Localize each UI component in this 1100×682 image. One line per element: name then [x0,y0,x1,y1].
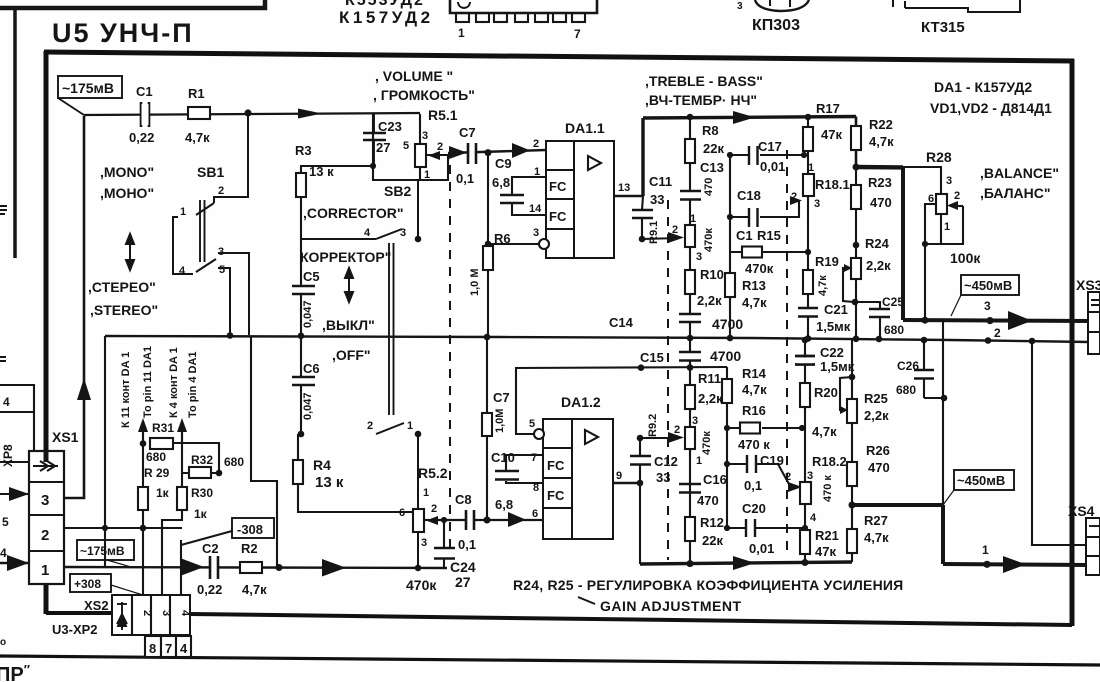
node C9 junction [485,149,492,156]
svg-text:R20: R20 [814,385,838,400]
svg-text:6: 6 [928,193,934,205]
svg-text:XS4: XS4 [1068,503,1095,519]
upper tone inner rail [729,155,731,338]
svg-text:,СТЕРЕО": ,СТЕРЕО" [88,279,156,295]
IC pins [456,13,469,22]
transistor KT315 package outline partial [905,0,1020,12]
svg-text:КОРРЕКТОР": КОРРЕКТОР" [300,249,391,265]
svg-text:FC: FC [549,179,567,194]
XP8 partial connector [0,385,34,462]
svg-text:27: 27 [376,140,390,155]
capacitor C25 [855,302,880,339]
~175mV callout box top-left [58,76,122,115]
svg-text:1: 1 [423,487,429,499]
svg-text:4: 4 [179,610,191,617]
svg-text:R31: R31 [152,421,174,435]
svg-text:470: 470 [870,195,892,210]
-308 callout box [232,518,274,538]
DA1.2 pin5 circle and feedback wire [534,429,544,439]
svg-text:R5.2: R5.2 [418,465,448,481]
svg-text:-308: -308 [237,522,263,537]
svg-text:U5 УНЧ-П: U5 УНЧ-П [52,18,194,48]
svg-text:,CORRECTOR": ,CORRECTOR" [303,205,404,221]
svg-text:1к: 1к [194,507,208,521]
svg-text:0,22: 0,22 [197,582,222,597]
svg-text:R27: R27 [864,513,888,528]
svg-text:680: 680 [884,323,904,337]
resistor R14 [722,379,732,403]
svg-text:7: 7 [165,641,172,656]
svg-text:R12: R12 [700,515,724,530]
svg-text:FC: FC [547,488,565,503]
capacitor C6 [292,377,315,385]
svg-text:2: 2 [141,610,153,616]
arrow into DA1.1 pin2 [512,143,530,158]
svg-text:КП303: КП303 [752,17,800,34]
corrector double arrow [345,268,353,302]
R20 top tie [802,337,809,344]
svg-text:С1: С1 [736,228,753,243]
resistor R12 [685,517,695,541]
svg-text:~450мВ: ~450мВ [964,278,1012,293]
upper output callout ~450mV [961,275,1019,295]
svg-text:R28: R28 [926,149,952,165]
svg-text:0,22: 0,22 [129,130,154,145]
svg-text:С11: С11 [649,174,672,189]
column R8 C13 R9.1 R10 C14 [689,117,691,338]
svg-text:8: 8 [149,641,156,656]
svg-text:0,047: 0,047 [302,300,314,328]
svg-text:,BALANCE": ,BALANCE" [980,165,1059,181]
svg-text:С6: С6 [303,361,320,376]
svg-text:4,7к: 4,7к [242,582,267,597]
svg-text:R21: R21 [815,528,839,543]
svg-text:С14: С14 [609,315,634,330]
lower column R11 R9.2 C16 R12 [689,385,691,563]
svg-text:2: 2 [791,191,797,203]
svg-text:DA1 - К157УД2: DA1 - К157УД2 [934,79,1032,95]
svg-text:R15: R15 [757,228,781,243]
dashed gang line volume [449,165,451,555]
svg-text:DA1.2: DA1.2 [561,394,601,410]
left stub arrows into XS1 [0,493,29,495]
node after R2 [276,564,283,571]
svg-text:~450мВ: ~450мВ [957,473,1005,488]
svg-text:С22: С22 [820,345,844,360]
svg-text:4,7к: 4,7к [742,295,767,310]
svg-text:R18.2: R18.2 [812,454,847,469]
XS2 cell1 antenna symbol [117,602,127,630]
svg-text:ХР8: ХР8 [1,444,15,467]
svg-text:R24: R24 [865,236,890,251]
svg-text:1: 1 [982,543,989,557]
svg-text:4: 4 [3,395,10,409]
svg-text:470: 470 [703,178,715,196]
svg-text:R18.1: R18.1 [815,177,850,192]
svg-text:680: 680 [224,455,244,469]
XS3 connector [1088,292,1100,354]
capacitor C16 [679,484,701,493]
svg-text:1к: 1к [156,486,170,500]
svg-text:0,1: 0,1 [458,537,476,552]
svg-text:R14: R14 [742,366,767,381]
svg-text:3: 3 [218,246,224,258]
R25 wiper bracket [840,377,852,410]
resistor R21 [800,530,810,554]
svg-text:С7: С7 [459,125,476,140]
svg-text:7: 7 [531,452,537,464]
svg-text:С8: С8 [455,492,472,507]
top tone bus [643,117,856,119]
arrow up R30 branch [181,428,183,443]
svg-text:С15: С15 [640,350,664,365]
R20 column top [804,339,806,412]
svg-text:470к: 470к [703,228,715,252]
svg-text:4: 4 [180,641,188,656]
svg-text:4700: 4700 [710,348,741,364]
capacitor C13 [680,191,701,200]
resistor R31 [150,438,173,449]
svg-text:470: 470 [868,460,890,475]
wires R31/R32 frame [143,336,277,567]
svg-text:,ВЫКЛ": ,ВЫКЛ" [322,317,375,333]
svg-text:2,2к: 2,2к [698,391,723,406]
svg-text:4,7к: 4,7к [185,130,210,145]
svg-text:2: 2 [533,138,539,150]
column R18.2 R21 [804,407,806,564]
svg-text:С7: С7 [493,390,510,405]
arrow up R31 branch [142,428,144,443]
thin wire to balance pot R28 [903,167,941,194]
svg-text:33: 33 [656,470,670,485]
svg-text:1: 1 [690,213,696,225]
svg-text:2: 2 [674,424,680,436]
svg-text:2,2к: 2,2к [697,293,722,308]
R24 wiper bracket [843,268,854,302]
upper output thick wire [856,165,903,170]
svg-text:6,8: 6,8 [495,497,513,512]
svg-text:С5: С5 [303,269,320,284]
capacitor C21 [798,308,818,317]
XS2 lower cells 8 7 4 [145,636,191,657]
DA1.1 output pin13 [614,195,643,198]
resistor R26 [847,462,857,486]
svg-text:R16: R16 [742,403,766,418]
column R22 [855,117,858,168]
svg-text:3: 3 [160,610,172,616]
svg-text:3: 3 [807,470,813,482]
svg-text:6: 6 [399,507,405,519]
svg-text:,TREBLE - BASS": ,TREBLE - BASS" [645,73,763,89]
svg-text:4,7к: 4,7к [742,382,767,397]
svg-text:2,2к: 2,2к [866,258,891,273]
DA1.2 triangle [585,430,598,444]
resistor R2 [240,562,262,573]
svg-text:3: 3 [533,227,539,239]
rung C17 [730,154,804,156]
svg-text:3: 3 [946,175,952,187]
XS4 connector [1086,518,1100,575]
svg-text:3: 3 [984,299,991,313]
XS1 connector body [29,451,64,584]
DA1.1 pin1 pin14 FC capacitor [500,177,546,215]
resistor R30 [177,487,187,510]
XS1 cell symbol [33,461,58,471]
node R5.2 pin3 on bus [415,565,422,572]
capacitor C24 [443,520,445,568]
svg-text:1: 1 [180,206,186,218]
svg-text:,БАЛАНС": ,БАЛАНС" [980,185,1051,201]
svg-text:,МОНО": ,МОНО" [100,185,154,201]
svg-text:К 4 конт DA 1: К 4 конт DA 1 [168,347,180,418]
svg-text:R10: R10 [700,267,724,282]
input wire upper channel [84,113,420,115]
C12 column and lower bus riser [639,438,641,564]
rung C20 [727,527,805,529]
svg-text:0,01: 0,01 [749,541,774,556]
svg-text:С24: С24 [450,559,476,575]
svg-text:2: 2 [785,471,791,483]
rung R16 [727,427,802,429]
svg-text:680: 680 [146,450,166,464]
svg-text:С20: С20 [742,501,766,516]
svg-text:XS3: XS3 [1076,277,1100,293]
svg-text:1,0М: 1,0М [494,409,506,433]
resistor R29 [138,487,148,510]
svg-text:470: 470 [697,493,719,508]
svg-text:GAIN ADJUSTMENT: GAIN ADJUSTMENT [600,598,742,614]
transistor KP303 partial symbol [755,0,809,11]
capacitor C1 [141,102,149,127]
arrow into pin6 [508,512,526,527]
svg-text:R4: R4 [313,457,331,473]
resistor R11 [685,385,695,409]
svg-text:3: 3 [41,492,49,509]
svg-text:5: 5 [529,418,535,430]
svg-text:С12: С12 [654,454,678,469]
svg-text:470 к: 470 к [822,475,834,502]
svg-text:680: 680 [896,383,916,397]
svg-text:1: 1 [534,166,540,178]
svg-text:2: 2 [218,185,224,197]
svg-text:2: 2 [954,190,960,202]
svg-text:+308: +308 [74,577,101,591]
resistor R32 [189,467,211,478]
lower output riser [942,321,944,505]
svg-text:6: 6 [532,508,538,520]
svg-text:4,7к: 4,7к [817,275,829,296]
svg-text:5: 5 [2,515,9,529]
svg-text:,OFF": ,OFF" [332,347,371,363]
svg-text:, ГРОМКОСТЬ": , ГРОМКОСТЬ" [373,87,475,103]
svg-text:R30: R30 [191,486,213,500]
svg-text:3: 3 [814,198,820,210]
svg-text:,ВЧ-ТЕМБР· НЧ": ,ВЧ-ТЕМБР· НЧ" [645,92,757,108]
svg-text:R9.2: R9.2 [647,414,659,437]
rung C19 [727,464,790,486]
svg-text:1,0 М: 1,0 М [469,268,481,296]
svg-text:470 к: 470 к [738,437,770,452]
wiper wire to C7 [448,150,546,153]
svg-text:VD1,VD2 - Д814Д1: VD1,VD2 - Д814Д1 [930,100,1052,116]
svg-text:R17: R17 [816,101,840,116]
potentiometer R18.2 [800,482,811,504]
column R17 R18.1 R19 C21 [807,117,809,339]
svg-text:FC: FC [549,209,567,224]
svg-text:SB2: SB2 [384,183,411,199]
svg-text:1: 1 [944,221,950,233]
DA1.1 triangle [588,156,601,170]
DA1.1 pin3 with circle [488,243,540,245]
svg-text:С1: С1 [136,84,153,99]
svg-text:4: 4 [810,512,817,524]
svg-text:1,5мк: 1,5мк [816,319,851,334]
capacitor C5 [292,286,315,294]
thick arrow lower input [180,558,204,576]
capacitor C22 [795,356,815,365]
svg-text:0,1: 0,1 [456,171,474,186]
resistor R1 [188,107,210,119]
svg-text:4700: 4700 [712,316,743,332]
svg-text:К 11 конт DA 1: К 11 конт DA 1 [120,352,132,428]
svg-text:470к: 470к [406,577,437,593]
svg-text:R32: R32 [191,453,213,467]
svg-text:22к: 22к [702,533,723,548]
svg-text:R24, R25 - РЕГУЛИРОВКА КОЭФФИ: R24, R25 - РЕГУЛИРОВКА КОЭФФИЦИЕНТА УСИЛ… [513,577,903,593]
svg-text:2: 2 [994,326,1001,340]
svg-text:7: 7 [574,27,581,41]
DA1.2 output pin 9 [613,482,640,485]
svg-text:470к: 470к [745,261,774,276]
resistor R8 [685,139,695,163]
column R23 R24 C25 [855,167,857,339]
svg-text:, VOLUME ": , VOLUME " [375,68,453,84]
svg-text:,STEREO": ,STEREO" [90,302,158,318]
resistor R4 [293,460,303,484]
lower bus thick wire [640,562,852,564]
svg-text:0,047: 0,047 [302,392,314,420]
svg-text:5: 5 [219,264,225,276]
bus left drop [104,336,106,567]
resistor R6 [487,152,489,337]
svg-text:4: 4 [364,227,371,239]
arrow on upper input wire [298,109,322,119]
node R31 left [140,440,147,447]
svg-text:3: 3 [400,227,406,239]
svg-text:о: о [0,637,6,648]
svg-text:4: 4 [0,546,7,560]
lower tone inner rail [726,367,728,528]
svg-text:R 29: R 29 [144,466,170,480]
R7 resistor (C7 1.0M) [486,337,488,520]
capacitor C23 [363,133,386,140]
svg-text:2: 2 [437,141,443,153]
svg-text:6,8: 6,8 [492,175,510,190]
resistor R27 [847,529,857,553]
svg-text:С19: С19 [760,453,784,468]
resistor R25 [847,399,857,423]
svg-text:1: 1 [424,169,430,181]
outer frame left edge [13,8,17,258]
svg-text:R13: R13 [742,278,766,293]
svg-text:5: 5 [403,140,409,152]
descending wires to XS2 [143,510,232,595]
svg-text:R5.1: R5.1 [428,107,458,123]
dashed separator x668 [667,200,669,560]
+308 callout box [70,574,111,592]
svg-text:27: 27 [455,574,471,590]
svg-text:4: 4 [179,265,186,277]
svg-text:R1: R1 [188,86,205,101]
svg-text:3: 3 [692,415,698,427]
svg-text:,MONO": ,MONO" [100,164,154,180]
capacitor C2 [210,556,218,579]
svg-text:R6: R6 [494,231,511,246]
resistor R17 [803,127,813,151]
potentiometer R9.2 [685,427,695,449]
bottom long border line [0,656,1100,665]
capacitor C11 [642,196,643,239]
capacitor C7 [468,143,476,164]
svg-text:То pin 11 DA1: То pin 11 DA1 [142,346,154,418]
capacitor C8 [466,511,474,530]
svg-text:13: 13 [618,182,630,194]
svg-text:22к: 22к [703,141,724,156]
svg-text:С16: С16 [703,472,727,487]
svg-text:К157УД2: К157УД2 [339,8,434,27]
svg-text:2: 2 [41,527,49,544]
svg-text:1: 1 [41,562,49,579]
bus branch to XS4 [1032,341,1088,545]
potentiometer R28 [936,194,947,214]
svg-text:FC: FC [547,458,565,473]
capacitor C14 [679,314,701,322]
svg-text:0,01: 0,01 [760,159,785,174]
svg-text:3: 3 [421,537,427,549]
switch SB1 wiring [173,113,249,335]
svg-text:С9: С9 [495,156,512,171]
svg-text:С18: С18 [737,188,761,203]
svg-text:1: 1 [458,26,465,40]
XS1 pin2 wire [64,527,182,529]
rung R15 [730,251,808,253]
resistor R22 [851,126,861,150]
svg-text:U3-ХР2: U3-ХР2 [52,622,98,637]
svg-text:~175мВ: ~175мВ [62,80,114,96]
svg-text:8: 8 [533,482,539,494]
svg-text:С13: С13 [700,160,724,175]
svg-text:R26: R26 [866,443,890,458]
resistor R3 [296,173,306,197]
potentiometer R9.1 [685,225,695,247]
svg-text:R2: R2 [241,541,258,556]
svg-text:3: 3 [737,1,743,12]
switch SB2 corrector [301,180,418,509]
svg-text:R19: R19 [815,254,839,269]
svg-text:47к: 47к [815,544,836,559]
capacitor C15 [689,338,691,385]
svg-text:R22: R22 [869,117,893,132]
lower output thick wire [852,503,943,507]
top strip upper figure border [0,0,265,8]
svg-text:R11: R11 [698,371,721,386]
left edge scan marks [0,206,7,214]
resistor R23 [851,185,861,209]
svg-text:2: 2 [672,224,678,236]
frame edge inside XS1 top cell [44,451,49,462]
svg-text:С2: С2 [202,541,219,556]
svg-text:1: 1 [696,455,702,467]
